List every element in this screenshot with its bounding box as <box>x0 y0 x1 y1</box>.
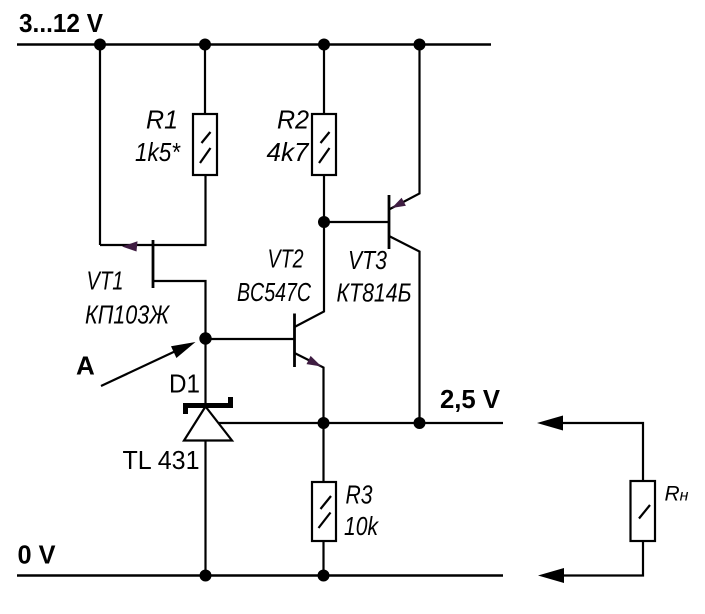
junction dot: top rail / VT1 gate column <box>94 39 106 51</box>
resistor R1 <box>193 114 217 175</box>
resistor R2 <box>312 114 336 175</box>
wire: VT3 base lead <box>324 221 389 223</box>
svg-text:D1: D1 <box>169 369 200 399</box>
svg-text:VT3: VT3 <box>348 245 387 275</box>
svg-text:1k5*: 1k5* <box>135 137 181 167</box>
wire: bottom 0V rail <box>17 574 503 576</box>
junction dot: D1 anode / 0V rail <box>200 570 212 582</box>
wire: R2 bottom lead <box>323 175 325 222</box>
wire: D1 anode to 0V rail <box>204 441 206 576</box>
svg-text:VT1: VT1 <box>87 266 124 296</box>
svg-text:2,5 V: 2,5 V <box>440 384 501 414</box>
wire: R1 bottom lead and VT1 gate horizontal <box>100 175 206 245</box>
svg-text:BC547C: BC547C <box>237 277 311 307</box>
svg-text:3...12 V: 3...12 V <box>19 8 104 38</box>
junction dot: VT2 emitter / R3 / 2.5V rail <box>318 417 330 429</box>
annotation arrow pointing to node A <box>101 342 196 386</box>
wire: node A to D1 cathode <box>204 339 206 405</box>
load output arrow (bottom, points left) <box>538 568 564 583</box>
transistor VT1 channel bar <box>152 240 155 288</box>
svg-text:0 V: 0 V <box>18 540 57 570</box>
wire: 2.5V output rail <box>219 422 503 424</box>
junction dot: top rail / R1 <box>199 39 211 51</box>
wire: R1 top lead <box>204 45 206 115</box>
node A junction dot <box>199 332 211 344</box>
svg-text:10k: 10k <box>344 511 380 541</box>
transistor VT1 gate arrow (P-channel, points left) <box>122 241 138 251</box>
wire: load bottom lead <box>560 541 643 576</box>
transistor VT2 emitter arrow (NPN) <box>307 356 322 367</box>
transistor VT3 collector lead <box>389 236 420 423</box>
svg-text:Rн: Rн <box>665 483 689 506</box>
transistor VT2 base bar <box>293 314 296 368</box>
svg-text:4k7: 4k7 <box>267 137 311 167</box>
wire: R3 top lead <box>322 423 324 482</box>
resistor R3 <box>312 482 336 541</box>
svg-text:КП103Ж: КП103Ж <box>85 300 171 330</box>
junction dot: top rail / R2 <box>318 39 330 51</box>
wire: top +V rail <box>17 43 491 45</box>
transistor VT2 emitter lead <box>295 353 324 423</box>
svg-text:A: A <box>76 351 95 381</box>
svg-text:R3: R3 <box>346 479 373 509</box>
junction dot: R3 / 0V rail <box>318 570 330 582</box>
junction dot: VT3 collector / 2.5V rail <box>414 417 426 429</box>
transistor VT3 emitter arrow (PNP, points to base bar) <box>392 198 406 208</box>
wire: VT1 source lead to node A <box>153 281 206 339</box>
wire: R2 top lead <box>323 45 325 115</box>
diode D1 cathode bar with bent ends (TL431) <box>183 397 233 414</box>
svg-text:VT2: VT2 <box>268 244 304 274</box>
junction dot: R2 / VT2 collector / VT3 base <box>318 216 330 228</box>
transistor VT3 base bar <box>388 195 391 249</box>
wire: VT1 gate column from +V rail <box>99 45 101 246</box>
svg-text:R2: R2 <box>277 105 310 135</box>
diode D1 triangle (anode) <box>184 407 232 441</box>
junction dot: top rail / VT3 emitter <box>414 39 426 51</box>
transistor VT2 collector lead <box>295 222 325 327</box>
load output arrow (top, points left) <box>537 416 563 431</box>
transistor VT3 emitter lead <box>389 45 420 210</box>
wire: R3 bottom lead <box>322 541 324 576</box>
wire: load top lead <box>560 423 643 481</box>
svg-text:TL 431: TL 431 <box>123 445 200 475</box>
svg-text:КТ814Б: КТ814Б <box>337 278 412 308</box>
wire: VT2 base lead from node A <box>206 338 295 340</box>
svg-text:R1: R1 <box>146 105 178 135</box>
resistor Rн (load) <box>631 481 656 541</box>
